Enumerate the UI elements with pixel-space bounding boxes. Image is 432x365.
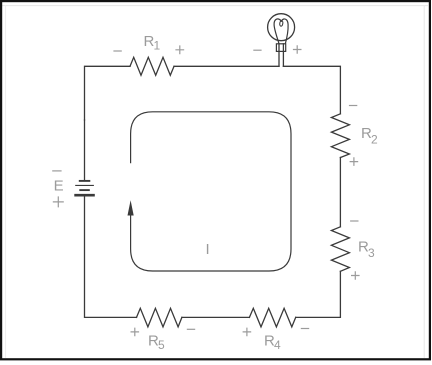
- polarity - R4: [301, 328, 309, 330]
- polarity + R4: [243, 328, 252, 337]
- resistor R3: [331, 227, 349, 271]
- lamp right lead: [282, 44, 284, 67]
- wire battery top to left wire: [84, 120, 86, 180]
- svg-text:3: 3: [368, 246, 375, 260]
- resistor R1: [130, 57, 174, 75]
- svg-text:1: 1: [154, 38, 161, 52]
- lamp left lead: [278, 44, 280, 67]
- lamp filament left lobe: [274, 19, 281, 44]
- wire top-left horizontal (corner to R1): [85, 66, 131, 120]
- lamp base: [276, 44, 285, 52]
- resistor R4: [249, 308, 295, 327]
- svg-text:I: I: [206, 241, 210, 258]
- polarity - R5: [187, 328, 195, 330]
- frame inner shadow line right: [423, 6, 425, 358]
- polarity - R1: [113, 50, 121, 52]
- wire R5 to bottom-left corner up to battery: [85, 196, 137, 317]
- polarity + R2: [350, 157, 359, 166]
- wire R4 to R5: [182, 316, 250, 318]
- label R2: [361, 125, 378, 147]
- label R1: [144, 33, 161, 52]
- current loop upper-left arc segment: [131, 112, 291, 271]
- current arrow head: [128, 200, 134, 215]
- polarity + R3: [351, 271, 360, 280]
- resistor R5: [137, 308, 182, 327]
- polarity - R2: [349, 105, 357, 107]
- polarity + R1: [175, 45, 184, 54]
- svg-text:E: E: [54, 177, 64, 194]
- lamp filament center loop: [279, 20, 283, 26]
- svg-text:2: 2: [371, 133, 378, 147]
- label R5: [148, 333, 165, 352]
- frame inner shadow line left: [5, 6, 7, 358]
- wire R1 to lamp left lead: [174, 65, 279, 67]
- label R4: [264, 333, 281, 352]
- lamp filament right lobe: [281, 19, 288, 44]
- wire R3 to bottom-right corner to R4: [296, 271, 341, 317]
- polarity + E: [53, 196, 64, 207]
- frame inner shadow line top: [2, 5, 428, 7]
- resistor R2: [331, 114, 349, 158]
- polarity - E: [52, 170, 61, 172]
- lamp bulb glass: [268, 14, 295, 41]
- polarity - R3: [350, 220, 358, 222]
- battery E plates: [74, 181, 95, 195]
- polarity + R5: [131, 328, 140, 337]
- polarity - lamp: [253, 49, 261, 51]
- polarity + lamp: [293, 45, 302, 54]
- wire lamp to top-right corner and down to R2: [283, 66, 340, 114]
- label R3: [358, 239, 375, 261]
- svg-text:4: 4: [274, 338, 281, 352]
- wire R2 to R3: [339, 158, 341, 227]
- svg-text:5: 5: [158, 338, 165, 352]
